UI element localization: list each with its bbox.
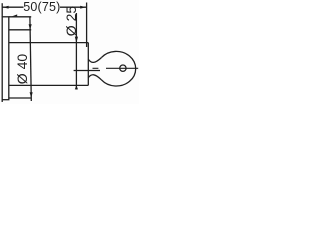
inner stem line (74, 70, 100, 72)
upper neck curve (88, 58, 101, 63)
rod top edge (9, 42, 89, 44)
wall plate (2, 17, 9, 100)
dimension line O25 vertical (75, 13, 77, 90)
arrowhead on plate top extension (12, 14, 17, 16)
dimension line 50(75) right part (60, 6, 86, 8)
step line at buffer top (9, 29, 31, 31)
hole in ball (120, 65, 126, 71)
plate left edge extension line (up) (1, 3, 3, 17)
plate bottom edge extended to dim line (9, 97, 31, 99)
plate top edge extended to dim line (9, 16, 31, 18)
rod bottom edge (9, 84, 89, 86)
label 50(75) (23, 0, 60, 14)
lower neck curve (88, 75, 101, 80)
50(75) right arrow (80, 6, 86, 9)
rod end edge (87, 43, 89, 86)
ball outline (101, 51, 135, 86)
O25 up arrow (75, 85, 78, 89)
center line dash left (93, 67, 99, 69)
plate left edge extension (below) (1, 100, 3, 102)
dimension line 50(75) left part (2, 6, 23, 8)
O40 bottom down arrow (30, 92, 33, 98)
extension line right for 50(75) (86, 3, 88, 48)
50(75) left arrow (3, 6, 9, 9)
label O25 rotated (70, 20, 72, 22)
center line dash right (106, 67, 138, 69)
O40 top down arrow (29, 24, 32, 30)
O25 down arrow (75, 37, 78, 43)
dimension line O40 vertical (30, 17, 31, 101)
label O40 rotated (21, 68, 23, 70)
